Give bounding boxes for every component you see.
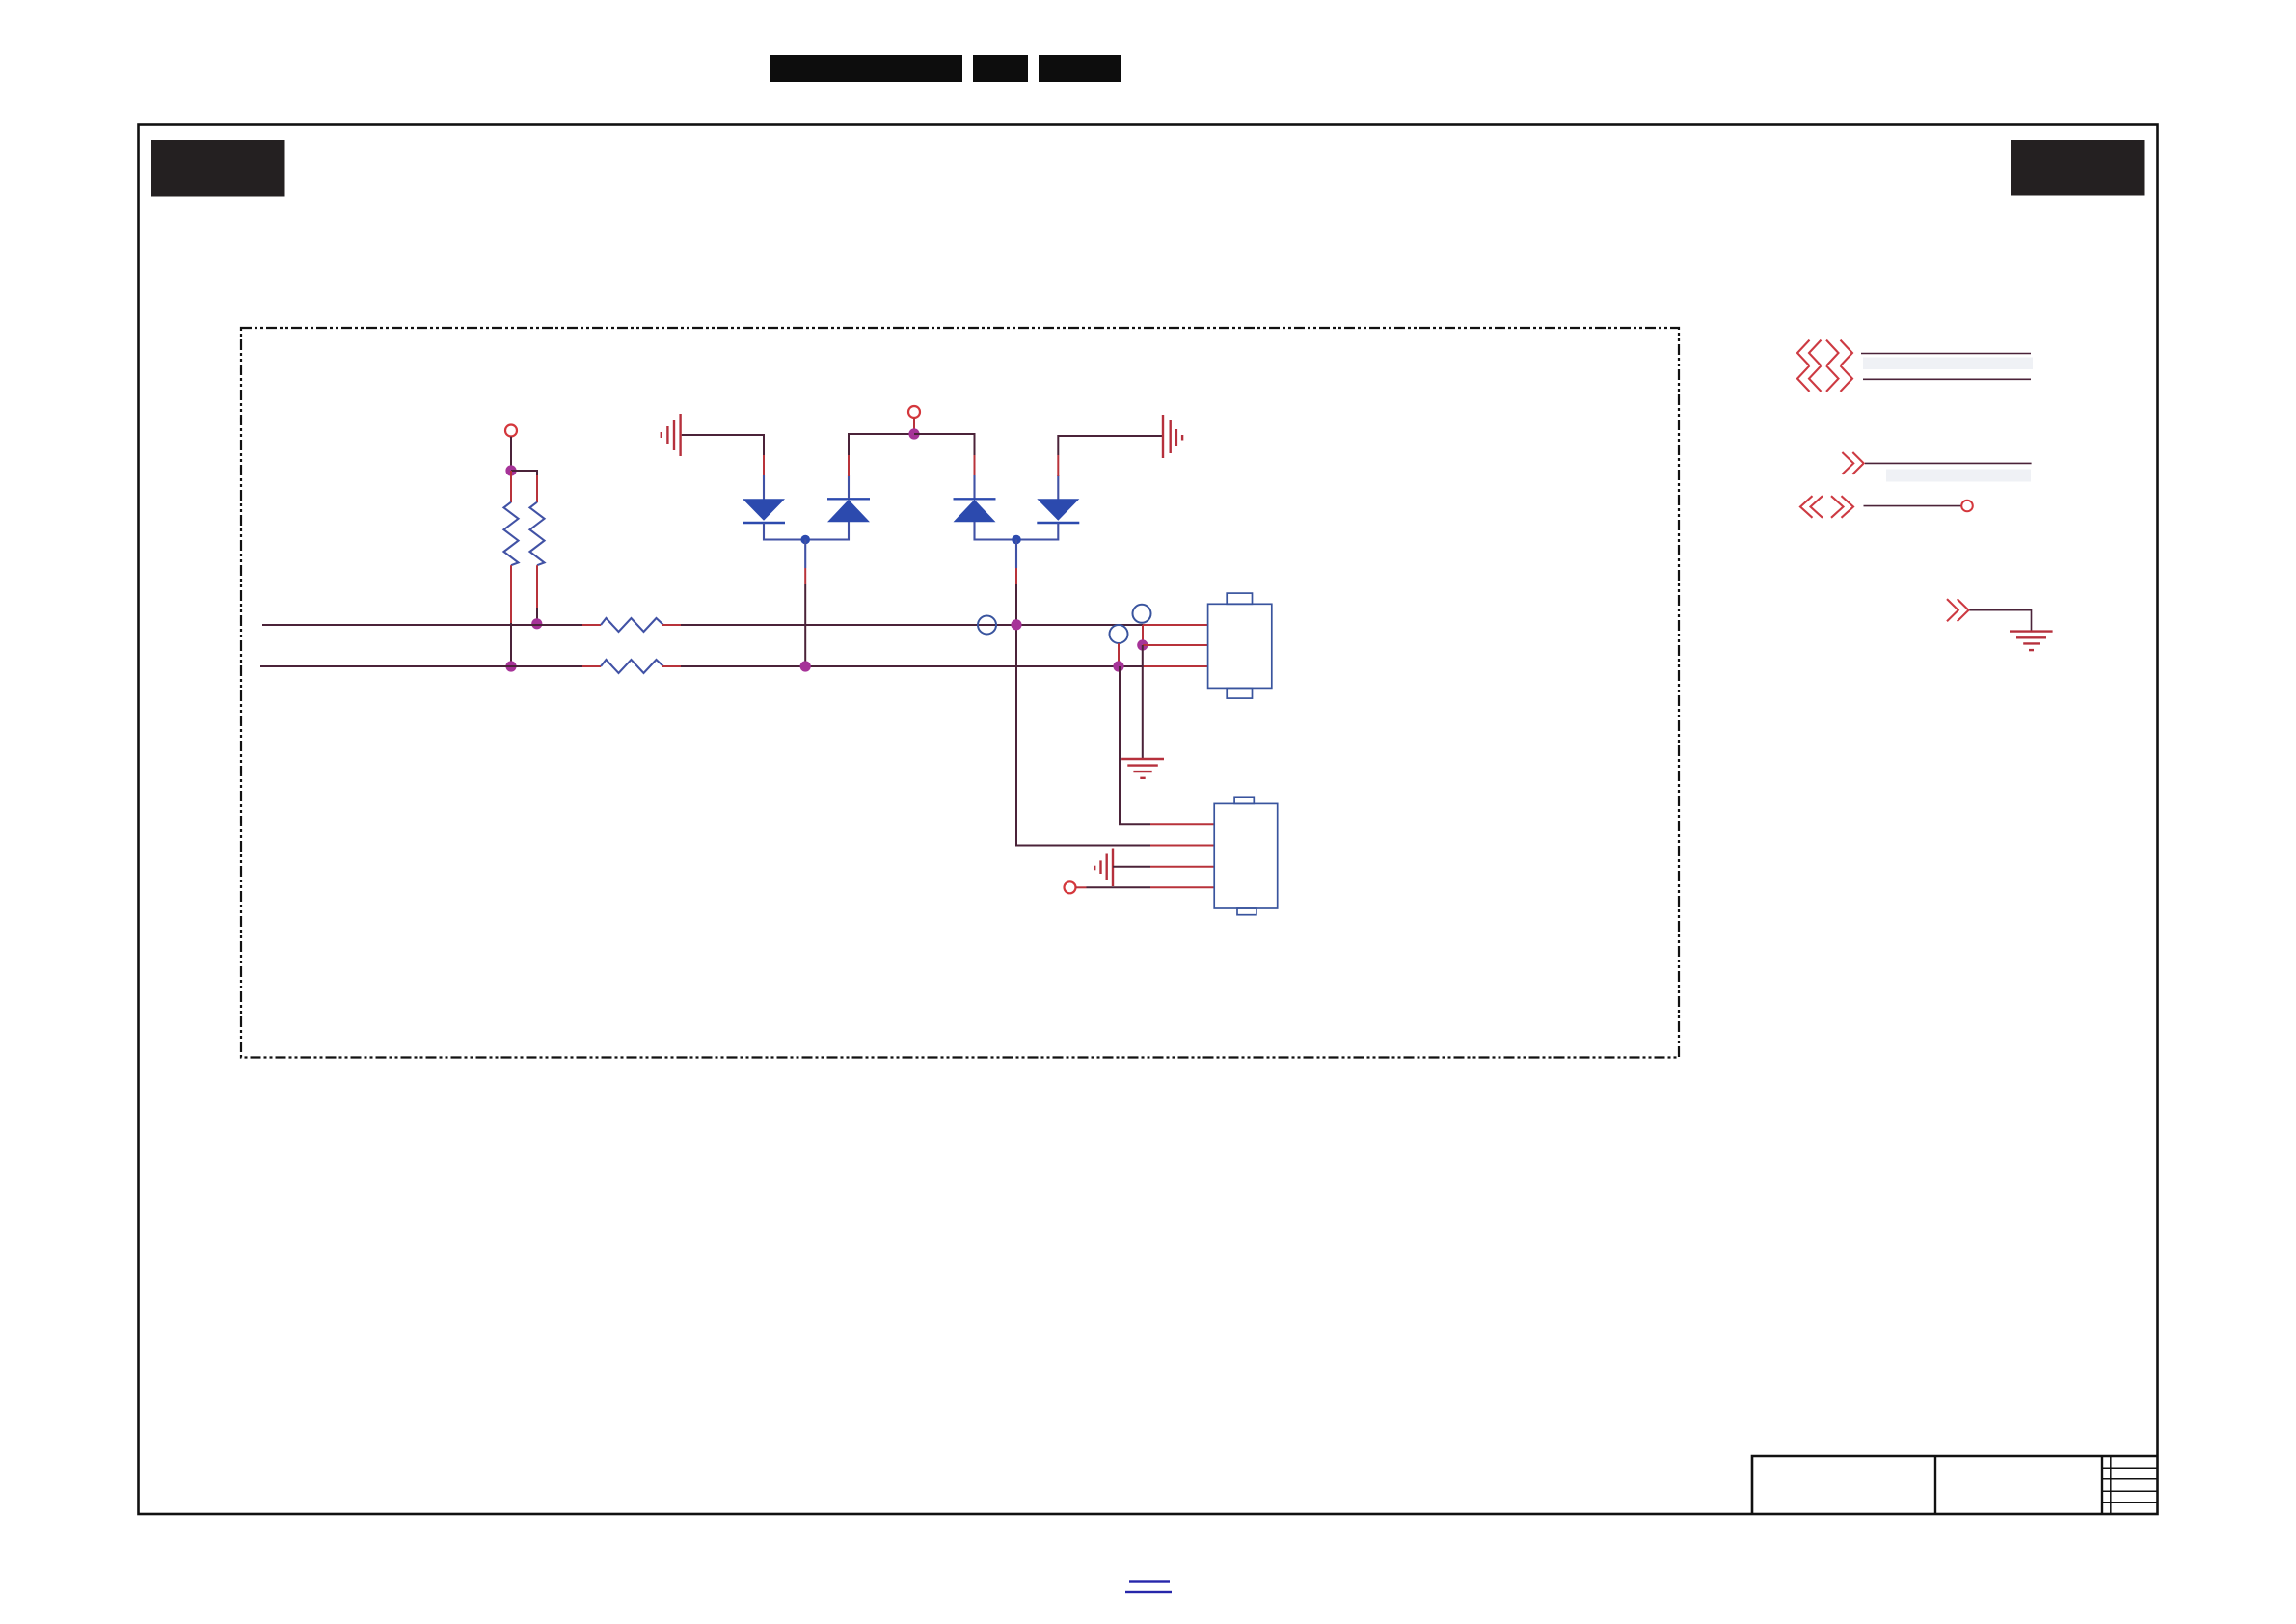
LEGEND <box>1797 340 2053 650</box>
node J (pin2 junction) <box>1137 639 1148 650</box>
no-connect circle above pin1 <box>1133 605 1151 623</box>
wire R1 top lead <box>510 471 512 502</box>
redaction bar 3 (page header) <box>1039 55 1121 82</box>
node B (R2 to upper bus) <box>531 618 542 629</box>
node C (R1 to lower bus) <box>505 661 516 671</box>
legend arrow pair row 2 <box>1797 365 1852 392</box>
wire D4 cathode to node G <box>1016 523 1058 540</box>
legend ground symbol <box>2010 632 2053 651</box>
terminal TP1 (red open circle, top of pull resistors) <box>505 425 517 437</box>
wire G1 to D1 <box>682 435 764 455</box>
diode D3 (pointing up) <box>954 499 996 522</box>
node I (tap on lower bus) <box>1113 661 1123 671</box>
wire upper bus red lead out of R3 <box>662 624 681 626</box>
wire circle tap to lower bus <box>1118 643 1120 666</box>
wire D2 anode to node D <box>805 522 849 540</box>
node G (between D3 and D4) <box>1012 535 1021 545</box>
terminal TP2 (red open circle, top middle) <box>908 406 920 418</box>
wire upper bus left segment <box>262 624 582 626</box>
node E (pair1 to lower bus) <box>800 661 811 671</box>
wire CN1 pin2 (red) <box>1143 644 1208 646</box>
wire lower bus left segment <box>260 665 582 667</box>
legend net line single arrow <box>1865 462 2032 464</box>
faint redacted text band (legend rows) <box>1863 358 2033 370</box>
wire R2 bottom lead (red then dark) <box>536 565 538 623</box>
wire node D down to lower bus <box>804 540 806 667</box>
wire D1 cathode to node D <box>764 523 805 540</box>
legend output arrow (single) <box>1842 452 1863 474</box>
SCHEMATIC CONTENT <box>260 406 1278 915</box>
legend net line row 2 <box>1863 378 2031 380</box>
wire upper bus red lead into R3 <box>582 624 601 626</box>
resistor R1 <box>504 502 519 566</box>
legend wire to ground <box>1970 610 2032 631</box>
wire D1 lead (blue) <box>763 475 765 500</box>
diode D4 (pointing down) <box>1037 499 1079 523</box>
redaction bar 1 (page header) <box>770 55 962 82</box>
redaction bar 2 (page header) <box>973 55 1028 82</box>
wire pin2 node down to ground G3 <box>1142 645 1144 758</box>
ground G2 (chassis ground, right, rotated) <box>1163 415 1182 458</box>
wire CN2 pin2 (red tail) <box>1150 845 1214 847</box>
node H (crossing upper bus) <box>1011 619 1021 630</box>
wire TP2 stem <box>913 418 915 429</box>
wire CN1 pin3 (red, from lower bus) <box>1143 665 1208 667</box>
connector CN1 <box>1208 593 1272 698</box>
wire CN1 pin1 (red) <box>1143 624 1208 626</box>
legend bidirectional arrows with terminal <box>1800 496 1853 518</box>
wire D1 anode lead (red) <box>763 455 765 476</box>
wire D4 top lead <box>1058 436 1163 500</box>
resistor R4 (series, lower line) <box>601 660 663 673</box>
terminal TP3 (red open circle, CN2 pin4) <box>1065 881 1076 893</box>
wire pin1 drop to pin2 node <box>1142 625 1144 645</box>
resistor R3 (series, upper line) <box>601 618 663 632</box>
ground G3 (earth, below CN1) <box>1121 759 1164 778</box>
wire lower bus right segment <box>681 665 1143 667</box>
wire jog to R2 <box>511 471 537 475</box>
faint redacted text band (legend single arrow) <box>1886 470 2031 482</box>
connector CN2 <box>1214 797 1278 914</box>
legend arrow pair row 1 (input/output chevrons) <box>1797 340 1852 366</box>
ground G4 (chassis ground, left of CN2, rotated) <box>1094 849 1113 887</box>
legend net line row 1 <box>1861 353 2031 355</box>
wire R1 bottom lead (red then dark) <box>510 565 512 666</box>
wire CN2 pin3 (from ground G4) <box>1113 866 1214 868</box>
dashed schematic enclosure <box>241 328 1679 1058</box>
wire D3 anode to node G <box>975 522 1017 540</box>
wire lower-bus tap down to CN2 pin1 <box>1120 666 1214 824</box>
node F (TP2 junction) <box>908 428 919 439</box>
wire D2 top lead <box>849 434 914 499</box>
resistor R2 <box>530 502 545 566</box>
diode D2 (pointing up) <box>827 499 870 522</box>
no-connect circle above lower-bus tap <box>1110 625 1128 643</box>
wire R2 top lead <box>536 475 538 502</box>
wire node F to D3 top <box>914 434 975 499</box>
footer link underline 2 <box>1125 1591 1172 1593</box>
no-connect circle on upper bus <box>978 616 996 635</box>
redacted title box top-right <box>2011 140 2145 196</box>
legend net line to terminal <box>1864 505 1962 507</box>
node A (junction above resistors) <box>505 465 516 475</box>
wire CN2 pin4 <box>1076 886 1215 888</box>
legend terminal circle <box>1961 501 1973 512</box>
sheet border frame <box>139 125 2158 1515</box>
footer link underline 1 <box>1129 1580 1170 1582</box>
node D (between D1 and D2) <box>800 535 810 545</box>
wire upper bus right segment <box>681 624 1143 626</box>
wire lower bus red lead out of R4 <box>662 665 681 667</box>
title block <box>1752 1456 2158 1514</box>
wire node G down to lower connector pin 2 <box>1016 540 1150 846</box>
legend arrow to ground <box>1947 599 1969 621</box>
redacted title box top-left <box>151 140 285 197</box>
wire TP1 stem <box>510 437 512 470</box>
ground G1 (chassis ground, left, rotated) <box>662 414 681 456</box>
diode D1 (pointing down) <box>743 499 785 523</box>
wire lower bus red lead into R4 <box>582 665 601 667</box>
